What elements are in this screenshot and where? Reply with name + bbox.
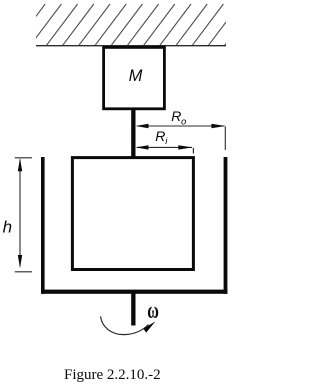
- block M: [104, 47, 165, 108]
- svg-text:R: R: [155, 128, 165, 144]
- svg-text:o: o: [181, 117, 186, 128]
- dimension arrow R_o: [136, 124, 226, 128]
- svg-text:Figure 2.2.10.-2: Figure 2.2.10.-2: [64, 367, 161, 383]
- dimension arrow h: [15, 158, 32, 272]
- fixed ceiling hatching: [14, 4, 256, 46]
- extension line from R_o to outer wall: [224, 127, 226, 151]
- caption Figure 2.2.10.-2: [64, 367, 161, 383]
- svg-text:R: R: [171, 108, 181, 124]
- svg-text:h: h: [3, 217, 12, 236]
- svg-text:ω: ω: [147, 298, 159, 324]
- label h: [3, 217, 12, 236]
- inner cylinder: [72, 158, 193, 270]
- rotation direction arc arrow: [101, 316, 156, 334]
- svg-text:M: M: [129, 67, 143, 85]
- outer container U-channel: [41, 157, 227, 294]
- label M: [129, 67, 143, 85]
- R_i end tick: [192, 148, 194, 154]
- ceiling boundary line: [36, 45, 226, 47]
- label R_i: [155, 128, 168, 147]
- svg-text:i: i: [165, 136, 168, 147]
- upper shaft: [131, 109, 135, 159]
- label R_o: [171, 108, 186, 127]
- label omega: [147, 298, 159, 324]
- dimension arrow R_i: [136, 145, 193, 149]
- lower shaft: [131, 294, 135, 326]
